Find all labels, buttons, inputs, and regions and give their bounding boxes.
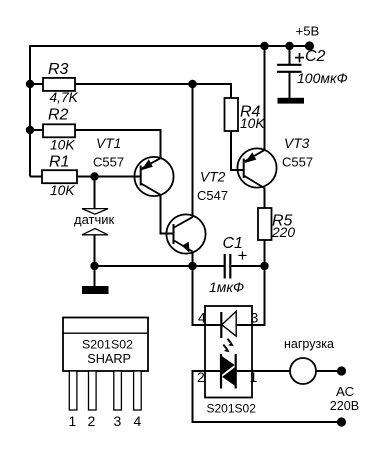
terminal AC top xyxy=(337,366,346,375)
capacitor C1 xyxy=(225,254,231,279)
svg-text:C557: C557 xyxy=(282,154,313,169)
wire R1 right lead to VT1 base xyxy=(77,176,140,178)
svg-text:нагрузка: нагрузка xyxy=(284,337,334,351)
svg-text:10K: 10K xyxy=(240,116,265,131)
label + (C2) xyxy=(295,53,304,62)
junction node C2/+5V xyxy=(285,42,293,50)
svg-text:VT1: VT1 xyxy=(96,136,121,151)
svg-text:4,7K: 4,7K xyxy=(50,90,79,105)
transistor VT1 xyxy=(134,157,173,196)
svg-text:S201S02: S201S02 xyxy=(82,337,133,351)
sensor датчик lower contact xyxy=(82,229,108,235)
junction node R3/bus xyxy=(26,80,34,88)
junction node VT2 emitter/common xyxy=(188,262,196,270)
ground under sensor line xyxy=(82,286,109,294)
optocoupler U2 box xyxy=(205,306,252,398)
wire R4 bottom to VT3 base xyxy=(231,131,244,170)
wire sensor bottom xyxy=(94,235,96,267)
svg-text:1: 1 xyxy=(69,413,77,429)
svg-text:2: 2 xyxy=(88,413,96,429)
svg-text:SHARP: SHARP xyxy=(87,352,131,366)
wire R2 right lead to VT1 emitter xyxy=(75,130,161,158)
svg-text:100мкФ: 100мкФ xyxy=(297,70,348,86)
wire C1 right to node xyxy=(231,265,265,267)
svg-text:3: 3 xyxy=(114,413,122,429)
junction node R1/VT1 base/sensor xyxy=(90,172,98,180)
svg-text:S201S02: S201S02 xyxy=(207,401,257,415)
svg-text:220В: 220В xyxy=(330,399,359,413)
resistor R2 xyxy=(43,124,75,137)
wire opto pin 2 to AC bottom xyxy=(193,371,343,422)
svg-text:10K: 10K xyxy=(50,183,75,198)
wire VT3 emitter to +5V xyxy=(264,46,266,150)
wire VT2 emitter node to opto pin 4 xyxy=(193,266,222,325)
svg-text:1мкФ: 1мкФ xyxy=(209,279,244,295)
svg-text:R1: R1 xyxy=(49,154,69,171)
wire R2 left lead xyxy=(30,129,43,131)
svg-text:C2: C2 xyxy=(305,48,326,65)
ground under C2 xyxy=(278,98,305,104)
wire C2 bottom lead xyxy=(289,72,291,99)
svg-text:1: 1 xyxy=(250,369,258,385)
DIP pin leg 4 xyxy=(134,371,142,410)
wire opto pin 1 to load xyxy=(252,370,290,372)
LED inside optocoupler xyxy=(221,311,236,338)
resistor R5 xyxy=(258,208,272,240)
svg-text:3: 3 xyxy=(251,310,259,326)
wire node A to VT2 collector xyxy=(192,84,194,217)
svg-text:4: 4 xyxy=(134,413,142,429)
svg-text:R3: R3 xyxy=(48,61,69,78)
svg-text:2: 2 xyxy=(197,369,205,385)
wire VT3 collector to R5 xyxy=(264,188,266,209)
svg-text:R2: R2 xyxy=(48,107,69,124)
DIP pin leg 2 xyxy=(89,371,97,410)
junction node A R3/R4/VT2 collector xyxy=(188,80,196,88)
svg-text:+: + xyxy=(238,246,248,265)
svg-text:АС: АС xyxy=(336,384,355,399)
svg-text:4: 4 xyxy=(198,310,206,326)
junction node R2/bus xyxy=(26,126,34,134)
svg-text:220: 220 xyxy=(271,225,295,240)
transistor VT2 xyxy=(161,214,206,253)
wire node to opto pin 3 xyxy=(236,266,265,325)
svg-text:VT2: VT2 xyxy=(200,170,226,185)
resistor R1 xyxy=(42,170,77,183)
wire load to AC terminal xyxy=(316,370,342,372)
wire sensor top xyxy=(94,177,96,210)
DIP pin leg 1 xyxy=(69,371,77,410)
resistor R4 xyxy=(225,98,239,131)
wire C2 top lead xyxy=(289,46,291,64)
wire +5V top rail xyxy=(30,45,309,47)
transistor VT3 xyxy=(237,148,276,187)
terminal AC bottom xyxy=(337,417,346,426)
wire R5 bottom to node xyxy=(264,240,266,266)
wire ground stub xyxy=(94,266,96,287)
svg-text:VT3: VT3 xyxy=(284,136,310,151)
DIP package S201S02 body xyxy=(63,318,148,372)
svg-text:C557: C557 xyxy=(93,154,124,169)
junction node sensor/ground/common xyxy=(90,262,98,270)
wire VT2 emitter down xyxy=(192,252,194,267)
wire VT1 collector to VT2 base xyxy=(161,195,170,234)
wire common emitter line xyxy=(95,265,225,267)
svg-text:10K: 10K xyxy=(50,137,75,152)
DIP pin leg 3 xyxy=(114,371,122,410)
wire R3 right lead to R4 xyxy=(75,84,231,98)
capacitor C2 xyxy=(277,65,302,72)
wire R1 left lead xyxy=(30,176,42,178)
svg-text:датчик: датчик xyxy=(74,212,115,227)
triac inside optocoupler xyxy=(205,354,252,389)
light arrows xyxy=(223,339,234,352)
wire left bus vertical xyxy=(29,45,31,176)
svg-text:+5В: +5В xyxy=(296,23,320,38)
wire R3 left lead xyxy=(30,83,43,85)
junction node VT3 emitter/+5V xyxy=(260,42,268,50)
load нагрузка circle xyxy=(290,358,316,384)
terminal +5V xyxy=(305,41,314,50)
resistor R3 xyxy=(43,78,75,91)
junction node R5/C1/pin3 xyxy=(260,262,268,270)
svg-text:C547: C547 xyxy=(197,188,228,203)
sensor датчик upper contact xyxy=(82,209,108,215)
